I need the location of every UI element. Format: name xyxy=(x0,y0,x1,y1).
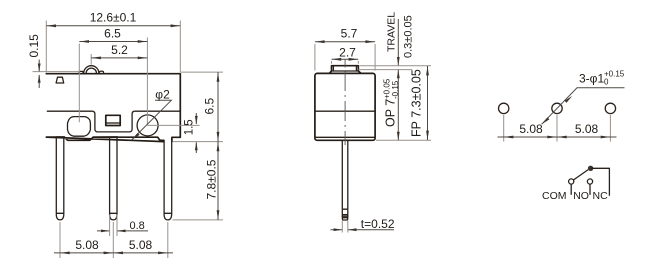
pin 3 right xyxy=(164,137,172,213)
dimension 5.08 right xyxy=(114,252,123,255)
top mold bump right xyxy=(99,71,103,73)
side pin xyxy=(342,140,348,209)
svg-text:2.7: 2.7 xyxy=(339,46,356,60)
side pin tip xyxy=(342,209,348,220)
dimension 0.15 arrows xyxy=(38,60,40,89)
svg-text:COM: COM xyxy=(542,190,567,202)
travel dimension upper arrow xyxy=(397,19,399,65)
reference line 0.15 (grey top line) xyxy=(33,71,81,73)
svg-text:NO: NO xyxy=(573,190,589,202)
hole dim ext lines xyxy=(504,115,611,142)
svg-text:OP 7: OP 7 xyxy=(383,99,397,127)
dimension 5.08 holes right xyxy=(557,136,566,139)
svg-text:12.6±0.1: 12.6±0.1 xyxy=(90,11,137,25)
inner shelf right xyxy=(135,110,180,112)
side inner line upper xyxy=(315,110,375,112)
svg-text:5.08: 5.08 xyxy=(129,238,153,252)
pin 1 tip xyxy=(56,213,64,220)
body bottom segment between notches xyxy=(56,136,117,138)
inner recess tub xyxy=(92,111,135,132)
dimension t=0.52 xyxy=(331,229,395,231)
leader 3-phi1 xyxy=(542,88,625,125)
inner shelf left xyxy=(47,110,92,112)
pin 2 middle xyxy=(110,137,117,214)
hole 2 xyxy=(552,103,562,113)
side base line xyxy=(315,136,375,138)
svg-text:6.5: 6.5 xyxy=(203,97,217,114)
svg-text:-0.15: -0.15 xyxy=(391,80,400,99)
svg-text:0: 0 xyxy=(604,78,609,87)
top mold bump left xyxy=(79,71,83,73)
operating position ext line xyxy=(359,69,413,71)
label OP 7 with tolerance xyxy=(382,78,400,127)
svg-text:5.08: 5.08 xyxy=(519,122,543,136)
dimension OP 7 (shared line, up arrow doubles as travel lower) xyxy=(397,70,399,140)
plunger cap xyxy=(330,66,361,73)
svg-text:φ2: φ2 xyxy=(155,88,170,102)
svg-text:5.08: 5.08 xyxy=(575,122,599,136)
svg-text:0.8: 0.8 xyxy=(130,220,145,232)
svg-text:t=0.52: t=0.52 xyxy=(361,217,395,231)
side pin ext below xyxy=(342,221,348,233)
bottom seat ext line xyxy=(376,139,431,141)
plunger dome inner xyxy=(86,68,96,73)
schematic: NC contact dot xyxy=(588,166,593,171)
svg-text:1.5: 1.5 xyxy=(184,119,196,135)
svg-text:0.15: 0.15 xyxy=(27,34,41,58)
svg-text:5.2: 5.2 xyxy=(111,43,128,57)
dimension 6.5 vertical right xyxy=(181,71,223,73)
side body outline xyxy=(315,73,375,140)
center line vertical xyxy=(344,60,346,146)
schematic: lever COM to NC dot xyxy=(573,170,588,180)
dimension 1.5 xyxy=(148,125,223,141)
plunger cap inner line xyxy=(332,67,359,72)
dimension 0.8 xyxy=(110,215,117,237)
side pin tip ticks xyxy=(342,209,348,218)
svg-text:5.7: 5.7 xyxy=(341,26,358,40)
mold mark trapezoid xyxy=(56,77,64,83)
schematic: NO terminal xyxy=(587,179,592,184)
pin 3 tip xyxy=(164,213,172,220)
dimension 6.5 horizontal xyxy=(79,38,147,126)
svg-text:TRAVEL: TRAVEL xyxy=(386,12,398,52)
dimension 5.7 xyxy=(315,44,375,71)
pin 2 tip xyxy=(110,213,117,220)
dimension 12.6±0.1 xyxy=(46,21,180,73)
body outline xyxy=(46,74,180,142)
svg-text:0.3±0.05: 0.3±0.05 xyxy=(403,15,415,58)
dimension 5.08 left xyxy=(60,222,168,258)
schematic: NC wire xyxy=(591,168,610,196)
svg-text:6.5: 6.5 xyxy=(104,27,121,41)
svg-text:NC: NC xyxy=(593,190,609,202)
left hole circle xyxy=(68,117,91,137)
plunger dome xyxy=(84,66,99,74)
dimension 7.8±0.5 xyxy=(173,219,224,221)
svg-text:FP 7.3±0.05: FP 7.3±0.05 xyxy=(410,69,424,137)
contact window rectangle xyxy=(106,115,120,125)
schematic: COM terminal xyxy=(569,179,574,184)
svg-text:3-φ1: 3-φ1 xyxy=(579,72,604,86)
dimension FP 7.3 xyxy=(427,66,429,140)
svg-text:5.08: 5.08 xyxy=(75,238,99,252)
contact window inner line xyxy=(107,122,120,124)
right hole circle phi2 xyxy=(137,115,158,136)
dimension 5.08 holes left xyxy=(498,136,617,138)
dimension 2.7 xyxy=(332,61,359,64)
svg-text:7.8±0.5: 7.8±0.5 xyxy=(205,159,219,199)
hole 3 xyxy=(605,103,615,113)
hole 1 xyxy=(499,103,509,113)
dimension 5.2 xyxy=(90,54,92,65)
pin 1 left xyxy=(56,137,64,213)
free position ext line xyxy=(360,65,432,67)
